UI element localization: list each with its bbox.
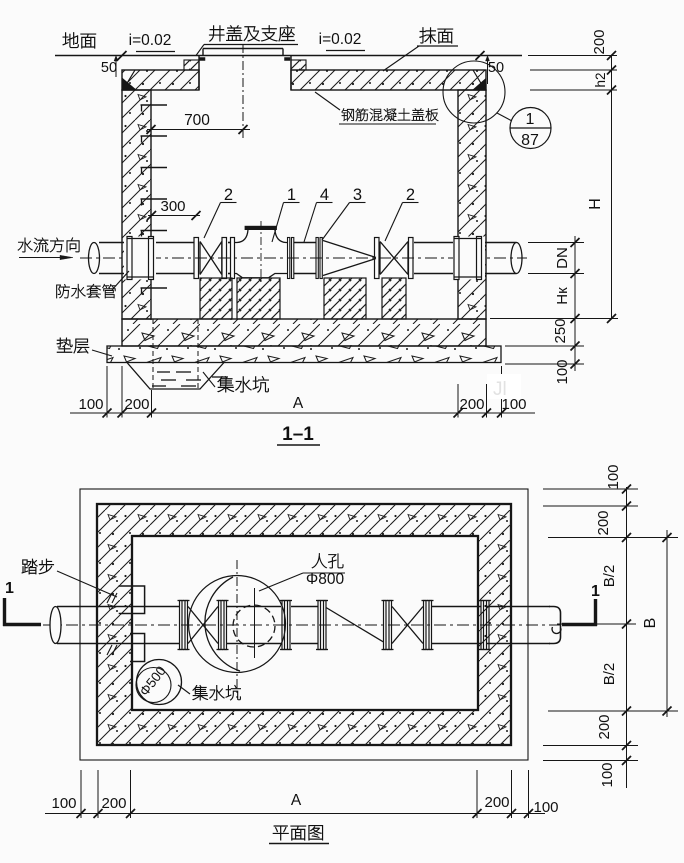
svg-text:B: B (642, 618, 659, 629)
svg-text:Hк: Hк (554, 287, 571, 305)
svg-text:1: 1 (591, 583, 600, 600)
svg-text:200: 200 (484, 794, 509, 811)
svg-text:A: A (291, 792, 302, 809)
svg-text:700: 700 (184, 112, 210, 129)
svg-text:3: 3 (353, 186, 362, 204)
svg-text:100: 100 (78, 396, 103, 413)
svg-text:50: 50 (101, 60, 117, 76)
svg-text:200: 200 (124, 396, 149, 413)
svg-text:B/2: B/2 (601, 565, 618, 588)
svg-text:h2: h2 (593, 72, 608, 87)
svg-text:300: 300 (160, 198, 185, 215)
svg-text:200: 200 (459, 396, 484, 413)
svg-text:100: 100 (599, 762, 616, 787)
svg-text:100: 100 (554, 359, 571, 384)
svg-text:2: 2 (224, 186, 233, 204)
svg-text:200: 200 (591, 29, 608, 54)
svg-text:4: 4 (320, 186, 329, 204)
svg-text:1: 1 (287, 186, 296, 204)
svg-text:250: 250 (552, 318, 569, 343)
svg-text:1: 1 (526, 111, 535, 128)
svg-text:Jl: Jl (493, 379, 507, 400)
svg-text:i=0.02: i=0.02 (129, 32, 172, 49)
svg-text:1: 1 (5, 580, 14, 597)
svg-text:87: 87 (521, 132, 539, 149)
svg-text:B/2: B/2 (601, 663, 618, 686)
svg-text:DN: DN (554, 247, 571, 269)
svg-text:100: 100 (51, 795, 76, 812)
svg-text:A: A (293, 395, 304, 412)
svg-text:200: 200 (596, 714, 613, 739)
svg-text:100: 100 (533, 799, 558, 816)
svg-text:1–1: 1–1 (282, 424, 314, 445)
svg-text:100: 100 (605, 464, 622, 489)
svg-text:200: 200 (101, 795, 126, 812)
svg-text:200: 200 (595, 510, 612, 535)
svg-text:i=0.02: i=0.02 (319, 31, 362, 48)
svg-text:H: H (587, 198, 604, 210)
svg-text:2: 2 (406, 186, 415, 204)
svg-text:50: 50 (488, 60, 504, 76)
